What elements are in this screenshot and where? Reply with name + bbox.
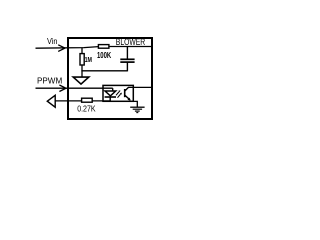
- resistor R1 1M body: [80, 54, 84, 65]
- wire 1M bottom lead: [81, 65, 83, 71]
- wire collector to right edge: [128, 86, 151, 88]
- capacitor C1 top plate: [120, 58, 134, 60]
- optocoupler U1 box: [103, 85, 133, 101]
- wire PPWM input line: [36, 87, 113, 89]
- svg-text:0.27K: 0.27K: [77, 103, 96, 113]
- light arrow 1: [116, 92, 119, 96]
- svg-text:Vin: Vin: [47, 37, 58, 46]
- wire LED cathode lead: [109, 97, 111, 101]
- earth ground symbol: [130, 106, 144, 108]
- LED D1 cathode bar: [105, 96, 116, 98]
- capacitor C1 bottom plate: [120, 61, 134, 63]
- svg-text:1M: 1M: [85, 55, 92, 64]
- arrowhead Vin input: [58, 45, 65, 52]
- phototransistor Q1 emitter: [125, 95, 130, 100]
- light arrow 2: [118, 94, 121, 98]
- wire capacitor bottom lead: [126, 62, 128, 71]
- ground triangle symbol: [73, 77, 89, 84]
- phototransistor Q1 base bar: [124, 89, 126, 97]
- LED D1 triangle: [105, 91, 116, 96]
- arrowhead PPWM input: [59, 85, 66, 92]
- wire PPWM output line: [55, 100, 81, 102]
- wire ground lead: [81, 71, 83, 77]
- wire 100K to right edge: [109, 46, 152, 48]
- svg-text:PPWM: PPWM: [37, 75, 62, 85]
- resistor R2 100K body: [98, 45, 109, 49]
- wire 1M top lead: [81, 48, 83, 54]
- phototransistor Q1 collector: [125, 88, 129, 92]
- wire bottom node horizontal: [81, 70, 127, 72]
- wire emitter to earth ground: [133, 101, 137, 107]
- wire capacitor top lead: [126, 46, 128, 58]
- wire LED anode jog: [112, 88, 114, 91]
- wire Vin input line: [36, 47, 99, 49]
- resistor R3 0.27K body: [82, 98, 93, 102]
- arrowhead emitter: [127, 98, 130, 101]
- svg-text:100K: 100K: [97, 51, 111, 60]
- wire 0.27K to LED cathode: [93, 100, 111, 102]
- outer box (circuit enclosure): [68, 38, 152, 119]
- arrowhead PPWM output (hollow): [47, 95, 55, 107]
- svg-text:BLOWER: BLOWER: [116, 37, 146, 47]
